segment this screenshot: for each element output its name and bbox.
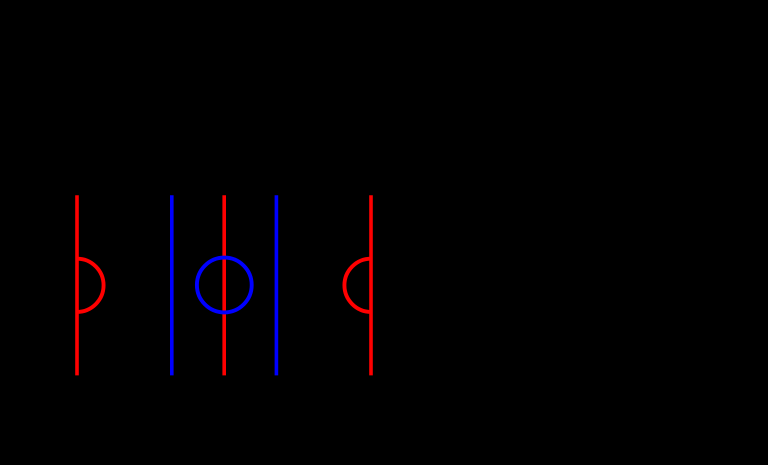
wire L3 (red vertical line 3) — [222, 195, 226, 375]
closed-string loop C1 (blue circle on line L3) — [197, 258, 252, 313]
wire L4 (blue vertical line 4) — [275, 195, 279, 375]
open-string arc A1 on line L1 (red right-bulging semicircle) — [77, 259, 104, 312]
wire L1 (red vertical line 1) — [75, 195, 79, 375]
wire L2 (blue vertical line 2) — [170, 195, 174, 375]
open-string arc A2 on line L5 (red left-bulging semicircle) — [344, 259, 371, 312]
wire L5 (red vertical line 5) — [369, 195, 373, 375]
